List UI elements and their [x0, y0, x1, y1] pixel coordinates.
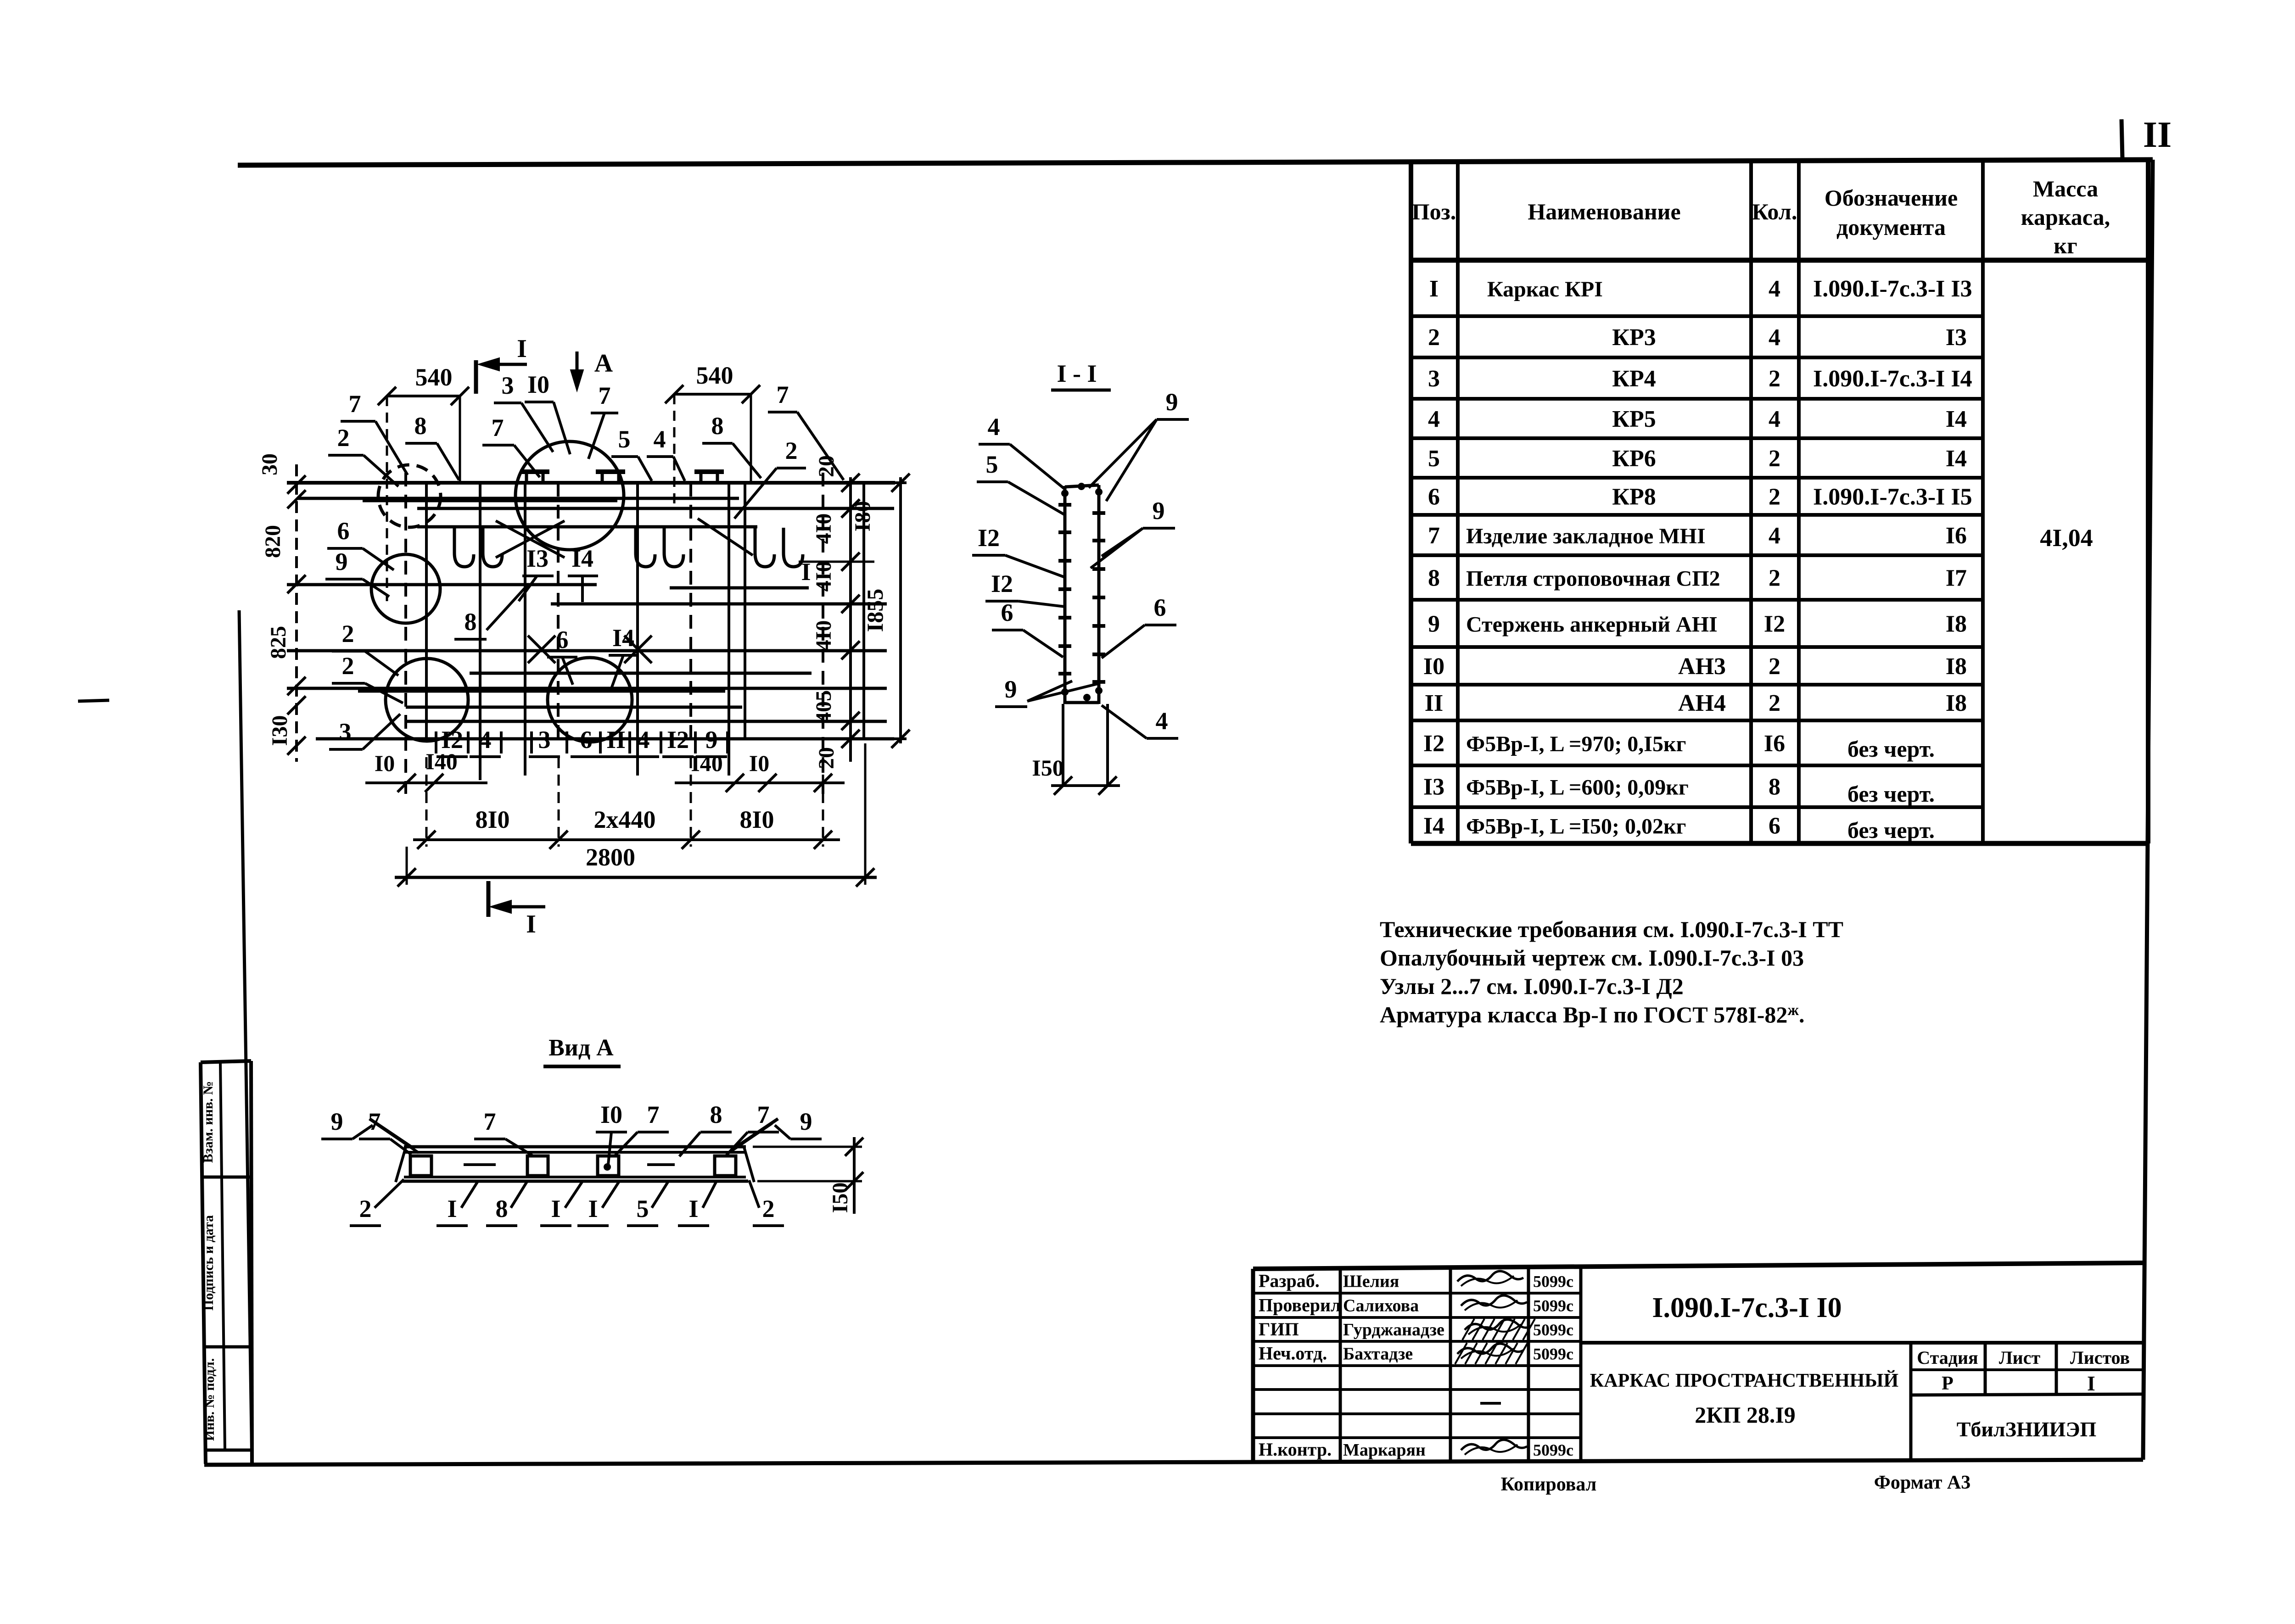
hook pair a [454, 528, 474, 567]
svg-text:2: 2 [1769, 446, 1780, 472]
page frame top border [238, 160, 2153, 165]
detail circle node 2 [378, 465, 441, 527]
detail circle node 3 [515, 441, 624, 550]
svg-text:Масса: Масса [2033, 176, 2098, 201]
beam left end slope [396, 1147, 406, 1182]
svg-text:I2: I2 [978, 524, 1000, 552]
title block column line [1527, 1269, 1530, 1462]
svg-text:4: 4 [1428, 406, 1440, 432]
svg-text:2: 2 [785, 437, 798, 464]
svg-text:I0: I0 [1423, 653, 1444, 680]
svg-text:5099с: 5099с [1533, 1321, 1573, 1339]
svg-text:I: I [688, 1195, 698, 1222]
svg-text:5: 5 [986, 451, 998, 478]
svg-text:Вид А: Вид А [549, 1035, 614, 1061]
svg-text:20: 20 [814, 455, 839, 477]
embed plate MN1 c [694, 469, 724, 474]
svg-text:2: 2 [1769, 366, 1780, 392]
svg-text:I2: I2 [667, 726, 689, 753]
svg-text:2: 2 [1769, 690, 1780, 716]
svg-text:I4: I4 [1423, 813, 1444, 839]
detail circle node bottom-left [386, 659, 468, 741]
svg-text:I4: I4 [571, 545, 593, 572]
svg-text:5099с: 5099с [1533, 1297, 1573, 1315]
svg-text:9: 9 [705, 726, 718, 753]
signature [1457, 1344, 1523, 1354]
svg-text:I50: I50 [1032, 755, 1064, 781]
svg-text:3: 3 [538, 726, 551, 753]
svg-text:4: 4 [638, 726, 650, 753]
section marker I top [474, 360, 478, 394]
svg-text:Каркас КРI: Каркас КРI [1487, 277, 1603, 301]
svg-text:8I0: 8I0 [739, 806, 774, 833]
view arrow A [576, 352, 579, 385]
table row line 6 [1411, 476, 1983, 480]
svg-text:9: 9 [331, 1108, 343, 1135]
svg-text:Разраб.: Разраб. [1259, 1271, 1320, 1291]
table row line 1 [1411, 258, 2148, 263]
svg-text:I855: I855 [862, 589, 888, 632]
dimension 10/140 left [365, 781, 487, 784]
svg-text:2: 2 [342, 620, 354, 647]
plan line 3 [417, 507, 894, 510]
dimension 540 left [387, 395, 460, 397]
svg-text:без черт.: без черт. [1847, 817, 1935, 843]
title block row line [1253, 1292, 1581, 1295]
svg-text:4I,04: 4I,04 [2040, 524, 2093, 552]
plan bottom line [316, 737, 894, 741]
svg-text:7: 7 [777, 381, 789, 408]
svg-text:I.090.I-7с.3-I I5: I.090.I-7с.3-I I5 [1813, 484, 1972, 510]
svg-text:Ф5Вр-I, L =970; 0,I5кг: Ф5Вр-I, L =970; 0,I5кг [1466, 732, 1686, 756]
signature [1461, 1440, 1527, 1450]
svg-text:кг: кг [2054, 233, 2077, 258]
right dimension chain outer [899, 477, 902, 743]
svg-text:8: 8 [414, 412, 427, 440]
plan line 4 [417, 525, 757, 529]
dimension 140/10 right [675, 781, 845, 784]
svg-text:2: 2 [1428, 324, 1440, 351]
left attribute strip [201, 1061, 251, 1062]
svg-text:КР6: КР6 [1612, 446, 1656, 472]
fold mark tick [78, 700, 109, 701]
svg-text:6: 6 [1154, 594, 1166, 621]
svg-text:I4: I4 [612, 624, 634, 652]
svg-text:АН3: АН3 [1678, 653, 1726, 680]
svg-text:7: 7 [647, 1101, 660, 1128]
svg-text:8: 8 [1769, 774, 1780, 800]
table row line 11 [1411, 683, 1983, 686]
svg-text:7: 7 [757, 1101, 770, 1128]
svg-text:4I0: 4I0 [812, 513, 836, 544]
svg-text:Подпись и дата: Подпись и дата [201, 1215, 216, 1311]
svg-text:Арматура класса Вр-I по ГОСТ 5: Арматура класса Вр-I по ГОСТ 578I-82ж. [1380, 1002, 1805, 1027]
svg-text:Узлы 2...7 см. I.090.I-7с.3-I: Узлы 2...7 см. I.090.I-7с.3-I Д2 [1380, 973, 1684, 999]
svg-text:30: 30 [257, 453, 282, 475]
svg-text:2КП 28.I9: 2КП 28.I9 [1695, 1402, 1796, 1428]
svg-text:I0: I0 [527, 371, 549, 398]
svg-text:А: А [594, 349, 613, 378]
svg-text:КАРКАС ПРОСТРАНСТВЕННЫЙ: КАРКАС ПРОСТРАНСТВЕННЫЙ [1590, 1370, 1898, 1391]
table column line 4 [1981, 160, 1985, 843]
svg-text:I: I [2087, 1372, 2095, 1395]
cross brace marks [496, 521, 565, 558]
svg-text:без черт.: без черт. [1847, 781, 1935, 807]
svg-text:20: 20 [814, 747, 839, 769]
title block row line [1253, 1316, 1581, 1319]
table row line 9 [1411, 598, 1983, 602]
table column line 1 [1456, 160, 1460, 843]
title block row line [1253, 1364, 1581, 1367]
svg-text:I8: I8 [1946, 611, 1967, 637]
svg-text:5099с: 5099с [1533, 1345, 1573, 1363]
table row line 8 [1411, 553, 1983, 557]
svg-text:7: 7 [349, 390, 361, 418]
svg-text:9: 9 [1428, 611, 1440, 637]
plan line 10 [406, 706, 742, 709]
svg-text:Копировал: Копировал [1501, 1474, 1597, 1495]
plan line 2 heavy segment [363, 498, 617, 502]
plan line 11 [406, 720, 887, 723]
svg-text:I: I [1429, 276, 1439, 302]
svg-text:Шелия: Шелия [1343, 1272, 1399, 1291]
svg-text:3: 3 [1428, 366, 1440, 392]
left dimension chain [295, 464, 298, 762]
detail circle node 9 [371, 554, 440, 623]
wire marks in view A [464, 1163, 496, 1166]
title block doc number cell [1581, 1341, 2143, 1345]
svg-text:7: 7 [1428, 523, 1440, 549]
svg-text:I30: I30 [268, 715, 292, 746]
table row line 14 [1411, 805, 1983, 809]
svg-text:8I0: 8I0 [475, 806, 509, 833]
svg-text:4: 4 [1769, 324, 1780, 351]
svg-text:I2: I2 [1423, 731, 1444, 757]
svg-text:I7: I7 [1946, 565, 1967, 592]
plan vertical bar 4 [636, 483, 639, 776]
title block column line [1339, 1269, 1342, 1462]
title block column line [1449, 1269, 1452, 1462]
svg-text:Салихова: Салихова [1343, 1296, 1419, 1316]
title block column line [1579, 1269, 1583, 1462]
svg-text:3: 3 [339, 718, 352, 746]
svg-text:9: 9 [800, 1108, 812, 1135]
table row line 10 [1411, 645, 1983, 649]
dimension 2800 [395, 876, 877, 879]
svg-text:Инв. № подл.: Инв. № подл. [202, 1358, 217, 1441]
svg-text:I6: I6 [1764, 731, 1785, 757]
svg-text:Гурджанадзе: Гурджанадзе [1343, 1320, 1444, 1339]
svg-text:2: 2 [359, 1195, 372, 1222]
svg-text:Н.контр.: Н.контр. [1259, 1439, 1332, 1460]
table row line 2 [1411, 314, 1983, 318]
table row line 5 [1411, 436, 1983, 440]
svg-text:Петля строповочная СП2: Петля строповочная СП2 [1466, 567, 1720, 591]
svg-text:I - I: I - I [1057, 360, 1097, 387]
svg-text:I: I [588, 1195, 598, 1222]
svg-text:6: 6 [1428, 484, 1440, 510]
svg-text:Опалубочный чертеж см. I.090.I: Опалубочный чертеж см. I.090.I-7с.3-I 03 [1380, 945, 1804, 971]
svg-text:Неч.отд.: Неч.отд. [1259, 1343, 1327, 1364]
svg-text:5: 5 [618, 425, 631, 453]
svg-text:Взам. инв. №: Взам. инв. № [201, 1081, 216, 1163]
svg-text:II: II [1425, 690, 1443, 716]
svg-text:I: I [526, 910, 536, 938]
svg-text:I: I [447, 1195, 457, 1222]
page frame bottom border [204, 1460, 2143, 1465]
svg-text:Проверил: Проверил [1259, 1295, 1341, 1316]
plan vertical axis 2 [557, 483, 560, 739]
table column line 3 [1797, 160, 1801, 843]
svg-text:Технические требования см. I.0: Технические требования см. I.090.I-7с.3-… [1380, 916, 1843, 942]
plan line 6 [551, 603, 887, 606]
svg-text:7: 7 [369, 1108, 381, 1135]
svg-text:4I0: 4I0 [812, 620, 836, 651]
svg-text:7: 7 [599, 382, 611, 409]
table row line 7 [1411, 513, 1983, 517]
plan line 5 [287, 583, 597, 586]
svg-text:8: 8 [711, 412, 724, 440]
plan vertical bar 6 [744, 483, 746, 739]
stage/sheet columns [1909, 1343, 1913, 1462]
svg-text:6: 6 [1001, 599, 1013, 626]
svg-text:I40: I40 [691, 750, 722, 776]
table row line 13 [1411, 764, 1983, 767]
svg-text:6: 6 [580, 726, 593, 753]
svg-text:I80: I80 [851, 501, 875, 532]
svg-text:каркаса,: каркаса, [2021, 204, 2110, 230]
svg-text:5: 5 [637, 1195, 649, 1222]
svg-text:I0: I0 [749, 750, 769, 776]
svg-text:Ф5Вр-I, L =I50; 0,02кг: Ф5Вр-I, L =I50; 0,02кг [1466, 815, 1686, 839]
svg-text:540: 540 [415, 363, 453, 391]
svg-text:I3: I3 [1423, 774, 1444, 800]
plan line 7 [287, 649, 887, 653]
plan right edge bar [862, 483, 865, 739]
svg-text:КР3: КР3 [1612, 324, 1656, 351]
view A beam outline [404, 1145, 746, 1149]
svg-text:АН4: АН4 [1678, 690, 1726, 716]
title block top [1253, 1263, 2143, 1269]
svg-text:Обозначение: Обозначение [1825, 185, 1958, 211]
svg-text:7: 7 [492, 414, 504, 441]
svg-text:I3: I3 [526, 545, 549, 572]
svg-text:4: 4 [1769, 523, 1780, 549]
svg-text:КР8: КР8 [1612, 484, 1656, 510]
svg-text:Ф5Вр-I, L =600; 0,09кг: Ф5Вр-I, L =600; 0,09кг [1466, 776, 1689, 800]
svg-text:8: 8 [710, 1101, 722, 1128]
svg-text:I8: I8 [1946, 690, 1967, 716]
embedded plates in view A [410, 1156, 431, 1176]
svg-text:I50: I50 [828, 1183, 852, 1213]
page frame left border [239, 610, 252, 1464]
svg-text:Лист: Лист [1999, 1347, 2041, 1368]
plan top chord line [287, 481, 895, 485]
dimension 150 section [1051, 784, 1120, 787]
svg-text:I2: I2 [991, 570, 1013, 597]
empty row dash [1480, 1402, 1501, 1405]
plan vertical bar 5 [728, 483, 730, 776]
svg-text:Р: Р [1942, 1373, 1954, 1394]
svg-text:4: 4 [1769, 406, 1780, 432]
svg-text:4: 4 [1156, 707, 1168, 735]
embed plate MN1 b [596, 469, 625, 474]
svg-text:2: 2 [1769, 565, 1780, 592]
svg-text:8: 8 [496, 1195, 508, 1222]
section marker I bottom [487, 881, 491, 917]
svg-text:Кол.: Кол. [1752, 199, 1797, 224]
svg-text:КР5: КР5 [1612, 406, 1656, 432]
svg-text:Маркарян: Маркарян [1343, 1440, 1426, 1460]
svg-text:4: 4 [1769, 276, 1780, 302]
dimension 540 right [674, 393, 751, 396]
svg-text:5099с: 5099с [1533, 1272, 1573, 1291]
plan left column axis [404, 473, 407, 794]
signature [1457, 1271, 1523, 1282]
title block row line [1253, 1388, 1581, 1391]
svg-text:Бахтадзе: Бахтадзе [1343, 1345, 1413, 1364]
svg-text:4: 4 [988, 413, 1000, 441]
plan vertical bar 3 [524, 483, 526, 776]
hook pair b [636, 528, 655, 567]
svg-text:Наименование: Наименование [1528, 199, 1680, 224]
svg-text:540: 540 [696, 362, 733, 389]
svg-text:2: 2 [1769, 484, 1780, 510]
embed plate MN1 a [520, 469, 549, 474]
plan vertical bar 2 [479, 483, 481, 780]
svg-text:I8: I8 [1946, 653, 1967, 680]
svg-text:2: 2 [1769, 653, 1780, 680]
svg-text:ГИП: ГИП [1259, 1319, 1299, 1339]
table column line 0 [1409, 160, 1413, 843]
svg-text:без черт.: без черт. [1847, 736, 1935, 762]
title block left [1251, 1269, 1255, 1462]
dimension 810 / 2x440 / 810 [413, 838, 840, 841]
plan line 9 [287, 687, 887, 690]
svg-text:6: 6 [556, 626, 569, 653]
right dimension chain inner [849, 477, 852, 762]
svg-text:КР4: КР4 [1612, 366, 1656, 392]
svg-text:I.090.I-7с.3-I I0: I.090.I-7с.3-I I0 [1652, 1292, 1842, 1323]
svg-text:I4: I4 [1946, 446, 1967, 472]
svg-text:4: 4 [479, 726, 492, 753]
table column line 2 [1749, 160, 1753, 843]
svg-text:I: I [551, 1195, 560, 1222]
section column foot [1062, 704, 1064, 786]
svg-text:I0: I0 [375, 750, 395, 776]
svg-text:ТбилЗНИИЭП: ТбилЗНИИЭП [1957, 1418, 2097, 1441]
plan right column axis [822, 473, 824, 794]
svg-text:I2: I2 [1764, 611, 1785, 637]
svg-text:9: 9 [336, 548, 348, 575]
svg-text:II: II [2143, 115, 2172, 155]
svg-text:Стадия: Стадия [1917, 1347, 1978, 1368]
svg-text:2: 2 [762, 1195, 775, 1222]
svg-text:405: 405 [812, 690, 836, 723]
svg-text:документа: документа [1836, 214, 1946, 240]
signature [1461, 1295, 1527, 1306]
title block row line [1253, 1436, 1581, 1439]
svg-text:I6: I6 [1946, 523, 1967, 549]
plan vertical bar 1 [425, 483, 428, 739]
svg-text:Стержень анкерный АНI: Стержень анкерный АНI [1466, 613, 1718, 637]
title block row line [1253, 1340, 1581, 1343]
dimension 150 view A [753, 1146, 862, 1148]
svg-text:6: 6 [1769, 813, 1780, 839]
svg-text:5: 5 [1428, 446, 1440, 472]
table row line 4 [1411, 397, 1983, 401]
svg-text:825: 825 [266, 626, 291, 659]
table column line 5 [2146, 160, 2150, 843]
page frame right border [2143, 160, 2153, 1460]
title block row line [1253, 1412, 1581, 1415]
svg-text:9: 9 [1166, 388, 1178, 416]
table row line 12 [1411, 719, 1983, 722]
svg-text:I3: I3 [1946, 324, 1967, 351]
section anchor ticks [1058, 503, 1071, 507]
section column outline [1064, 486, 1067, 704]
plan line 2 [297, 497, 739, 500]
svg-text:9: 9 [1005, 675, 1017, 703]
svg-text:6: 6 [337, 517, 350, 545]
svg-text:I0: I0 [600, 1101, 622, 1128]
hook pair c [755, 528, 774, 567]
page number tick [2121, 119, 2122, 159]
svg-text:Изделие закладное МНI: Изделие закладное МНI [1466, 524, 1706, 548]
svg-text:3: 3 [502, 372, 514, 399]
svg-text:I4: I4 [1946, 406, 1967, 432]
svg-text:9: 9 [1153, 497, 1165, 525]
svg-text:4I0: 4I0 [812, 561, 836, 592]
detail circle node bottom-center [548, 658, 632, 742]
svg-text:8: 8 [1428, 565, 1440, 592]
svg-text:Листов: Листов [2070, 1347, 2130, 1368]
signature [1465, 1319, 1531, 1330]
plan line 9 heavy segment [358, 689, 725, 693]
svg-text:I40: I40 [425, 748, 457, 774]
plan vertical axis 3 [689, 483, 692, 739]
svg-text:2: 2 [342, 652, 354, 680]
table row line 15 [1411, 841, 2148, 846]
svg-text:820: 820 [261, 525, 285, 558]
svg-text:I.090.I-7с.3-I I3: I.090.I-7с.3-I I3 [1813, 276, 1972, 302]
svg-text:7: 7 [484, 1108, 496, 1135]
plan line 8 [470, 672, 812, 675]
svg-text:2х440: 2х440 [594, 806, 656, 833]
svg-text:5099с: 5099с [1533, 1441, 1573, 1459]
svg-text:II: II [606, 726, 626, 753]
beam right end slope [744, 1147, 754, 1182]
svg-text:2: 2 [337, 424, 350, 452]
svg-text:8: 8 [465, 608, 477, 636]
svg-text:Формат А3: Формат А3 [1874, 1472, 1971, 1493]
svg-text:I.090.I-7с.3-I I4: I.090.I-7с.3-I I4 [1813, 366, 1972, 392]
anchor rods bent up [369, 1119, 413, 1148]
svg-text:2800: 2800 [586, 843, 635, 871]
svg-text:4: 4 [654, 425, 666, 453]
svg-text:I: I [517, 335, 527, 363]
table row line 3 [1411, 356, 1983, 359]
svg-text:Поз.: Поз. [1412, 199, 1456, 224]
